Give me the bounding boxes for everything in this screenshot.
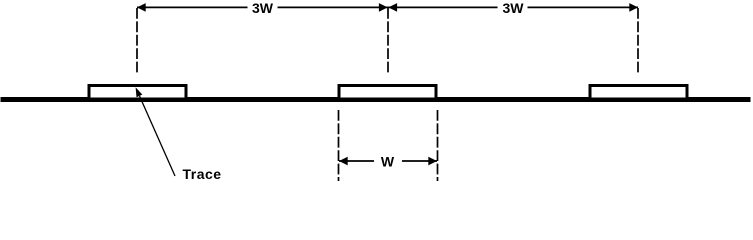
extension line right (dashed) xyxy=(637,8,639,73)
arrowhead left (points left) xyxy=(137,3,146,12)
W dimension line left segment xyxy=(339,160,374,162)
ground plane line xyxy=(1,97,751,102)
arrowhead right (points right) xyxy=(629,3,638,12)
W extension line right (dashed) xyxy=(437,110,439,181)
dimension line 3W right segment xyxy=(528,6,639,8)
trace T2 (middle) xyxy=(339,86,436,100)
W arrowhead right (points right) xyxy=(428,157,437,166)
leader arrowhead (points up-left into trace) xyxy=(136,87,143,97)
trace T3 (right) xyxy=(590,86,687,100)
arrowhead middle-right (points left) xyxy=(388,3,397,12)
extension line left (dashed) xyxy=(136,8,138,73)
W extension line left (dashed) xyxy=(338,110,340,181)
svg-text:Trace: Trace xyxy=(183,166,222,182)
svg-text:W: W xyxy=(381,154,395,170)
leader line to Trace label xyxy=(140,96,176,176)
W dimension line right segment xyxy=(402,160,437,162)
extension line middle (dashed) xyxy=(387,8,389,73)
dimension line 3W left segment xyxy=(137,6,248,8)
trace T1 (left) xyxy=(89,86,186,100)
arrowhead middle-left (points right) xyxy=(379,3,388,12)
dimension line 3W middle segment xyxy=(278,6,498,8)
W arrowhead left (points left) xyxy=(339,157,348,166)
svg-text:3W: 3W xyxy=(503,0,525,16)
svg-text:3W: 3W xyxy=(252,0,274,16)
